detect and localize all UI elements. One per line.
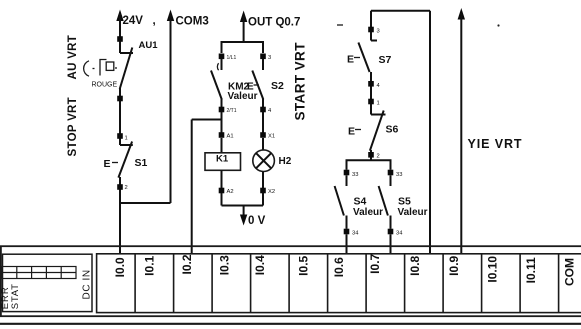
svg-text:S2: S2: [271, 80, 284, 92]
svg-text:I0.11: I0.11: [524, 257, 538, 283]
svg-text:AU1: AU1: [139, 40, 159, 51]
svg-text:E: E: [348, 126, 355, 138]
svg-text:S7: S7: [379, 54, 392, 66]
svg-text:STOP VRT: STOP VRT: [67, 97, 79, 157]
svg-text:START VRT: START VRT: [293, 42, 308, 121]
svg-text:2/T1: 2/T1: [227, 108, 237, 114]
svg-text:Valeur: Valeur: [353, 207, 383, 218]
svg-text:DC IN: DC IN: [82, 269, 93, 299]
svg-text:34: 34: [396, 231, 403, 237]
svg-text:I0.8: I0.8: [408, 255, 422, 275]
svg-text:AU VRT: AU VRT: [67, 35, 79, 80]
svg-text:STAT: STAT: [10, 283, 21, 309]
svg-text:I0.6: I0.6: [332, 257, 346, 277]
svg-text:I0.7: I0.7: [368, 253, 382, 273]
svg-text:34: 34: [352, 231, 359, 237]
svg-text:I0.1: I0.1: [143, 255, 157, 275]
svg-text:X2: X2: [268, 189, 275, 195]
svg-text:2: 2: [377, 154, 380, 160]
svg-text:I0.9: I0.9: [447, 255, 461, 275]
svg-text:1: 1: [377, 101, 380, 107]
svg-text:I0.0: I0.0: [113, 257, 127, 277]
svg-text:1: 1: [125, 136, 128, 142]
svg-text:3: 3: [377, 29, 380, 35]
svg-text:ROUGE: ROUGE: [92, 82, 118, 89]
svg-text:K1: K1: [216, 154, 229, 165]
svg-text:E: E: [104, 158, 111, 170]
svg-text:1/L1: 1/L1: [227, 55, 237, 61]
svg-text:OUT Q0.7: OUT Q0.7: [248, 17, 300, 29]
svg-text:COM: COM: [562, 258, 576, 286]
svg-text:X1: X1: [268, 134, 275, 140]
svg-text:S5: S5: [398, 196, 411, 208]
svg-text:24V: 24V: [123, 15, 144, 27]
svg-text:A2: A2: [227, 189, 234, 195]
svg-text:YIE VRT: YIE VRT: [468, 137, 523, 151]
svg-text:Valeur: Valeur: [398, 207, 428, 218]
svg-text:S6: S6: [386, 124, 399, 136]
svg-text:Valeur: Valeur: [228, 91, 258, 102]
svg-text:33: 33: [352, 172, 358, 178]
svg-text:,: ,: [153, 15, 156, 27]
svg-text:H2: H2: [279, 156, 292, 167]
svg-text:0 V: 0 V: [248, 215, 266, 227]
svg-text:I0.2: I0.2: [180, 254, 194, 274]
svg-text:I0.3: I0.3: [218, 255, 232, 275]
svg-text:3: 3: [268, 55, 271, 61]
svg-text:S4: S4: [354, 196, 367, 208]
svg-text:I0.5: I0.5: [297, 255, 311, 275]
svg-text:I0.4: I0.4: [253, 255, 267, 275]
svg-text:I0.10: I0.10: [486, 256, 500, 283]
svg-text:COM3: COM3: [176, 16, 209, 28]
svg-text:2: 2: [125, 185, 128, 191]
svg-text:S1: S1: [135, 157, 148, 169]
svg-text:A1: A1: [227, 134, 234, 140]
svg-text:E: E: [347, 54, 354, 66]
svg-text:33: 33: [396, 172, 402, 178]
